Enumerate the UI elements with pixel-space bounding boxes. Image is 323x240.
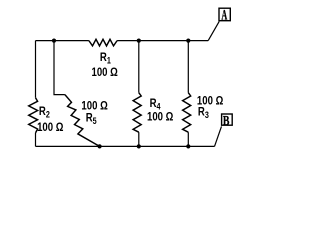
wire R3 bottom lead (187, 132, 189, 146)
node dot bottom R5 (98, 144, 102, 148)
wire R3 branch top lead (187, 41, 189, 93)
resistor R5 (diagonal) (65, 95, 100, 147)
bottom wire (36, 145, 215, 147)
terminal A box (219, 8, 230, 21)
wire R2 bottom lead (35, 133, 37, 147)
terminal B box (222, 114, 233, 125)
node dot top R5 branch (52, 39, 56, 43)
svg-text:R4: R4 (150, 97, 161, 112)
svg-text:R2: R2 (39, 105, 50, 120)
wire R4 branch top lead (138, 41, 140, 93)
node dot top R3 branch (186, 39, 190, 43)
svg-text:100 Ω: 100 Ω (92, 66, 119, 79)
node dot top R4 branch (137, 39, 141, 43)
wire R5 branch vertical and bend (54, 41, 65, 95)
svg-text:R5: R5 (86, 111, 97, 126)
wire R2 branch top lead (35, 41, 37, 98)
wire diagonal to terminal A (208, 21, 219, 40)
resistor R1 (89, 39, 117, 46)
svg-text:R3: R3 (198, 106, 209, 121)
wire diagonal to terminal B (215, 126, 222, 146)
top wire left segment (36, 40, 89, 42)
svg-text:100 Ω: 100 Ω (37, 121, 64, 134)
node dot bottom R4 (137, 144, 141, 148)
node dot bottom R3 (186, 144, 190, 148)
resistor R2 (29, 98, 38, 133)
svg-text:100 Ω: 100 Ω (147, 111, 174, 124)
svg-text:B: B (223, 112, 230, 128)
wire R4 bottom lead (138, 132, 140, 146)
resistor R4 (133, 93, 141, 133)
top wire right segment (117, 40, 208, 42)
svg-text:A: A (221, 7, 227, 23)
svg-text:R1: R1 (100, 51, 111, 66)
resistor R3 (183, 93, 191, 133)
